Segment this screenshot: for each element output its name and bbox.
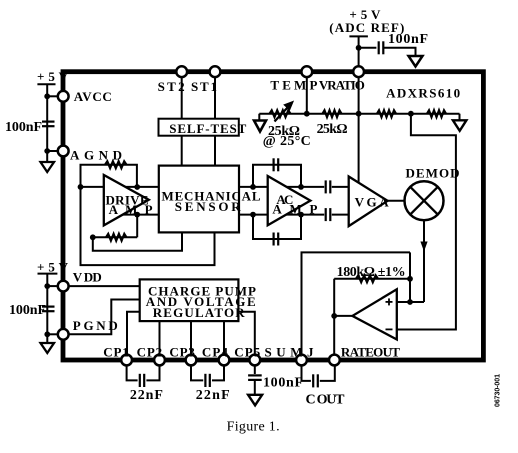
svg-text:REGULATOR: REGULATOR xyxy=(153,305,246,320)
ADXRS610 chip boundary xyxy=(63,72,483,360)
svg-text:22nF: 22nF xyxy=(196,388,230,403)
wire self-test to sensor (ST1) xyxy=(214,136,216,166)
wire drive bottom feedback xyxy=(93,236,137,238)
(ADC REF) label xyxy=(329,20,404,35)
node AVCC junction xyxy=(44,93,50,99)
svg-text:06730-001: 06730-001 xyxy=(495,374,502,407)
node AC in top junction xyxy=(250,184,256,190)
SENSOR label xyxy=(175,199,242,214)
TEMP pin label xyxy=(270,78,317,93)
svg-text:CP1: CP1 xyxy=(103,344,129,359)
100nF label (CP5) xyxy=(263,376,303,391)
svg-text:DEMOD: DEMOD xyxy=(406,165,460,180)
pin CP5 xyxy=(249,355,260,366)
VGA label xyxy=(355,195,390,210)
node PGND junction xyxy=(44,331,50,337)
CP5 pin label xyxy=(234,344,260,359)
node AC out bottom junction xyxy=(298,212,304,218)
CP4 pin label xyxy=(202,344,229,359)
resistor (RATIO to divider node) xyxy=(377,110,396,117)
node feedback resistor right junction xyxy=(407,276,413,282)
svg-text:AMP: AMP xyxy=(272,201,317,216)
resistor (drive amp bottom feedback) xyxy=(106,234,127,241)
svg-text:SENSOR: SENSOR xyxy=(175,199,242,214)
capacitor 100nF (AVCC decoupling) xyxy=(42,122,55,127)
06730-001 doc number xyxy=(495,374,502,407)
svg-text:22nF: 22nF xyxy=(130,388,163,403)
wire charge pump to CP1 xyxy=(127,312,140,357)
node VDD junction xyxy=(44,283,50,289)
op-amp VGA xyxy=(349,177,388,227)
wire lower signal rail xyxy=(110,214,324,216)
+5V ADC REF rail bar xyxy=(349,35,368,37)
node ADC REF junction xyxy=(356,45,362,51)
CP3 pin label xyxy=(169,344,195,359)
svg-text:+ 5 V: + 5 V xyxy=(37,260,69,275)
pin CP2 xyxy=(154,355,165,366)
wire upper signal rail xyxy=(81,186,325,188)
+5V supply rail bar (AVCC) xyxy=(37,83,55,85)
svg-text:ST2: ST2 xyxy=(158,79,185,94)
mixer DEMOD xyxy=(405,181,444,220)
wire cap to ground (ADC REF) xyxy=(383,48,415,56)
ST2 pin label xyxy=(158,79,185,94)
capacitor (AC amp top feedback) xyxy=(274,158,279,171)
svg-text:C OUT: C OUT xyxy=(306,393,346,408)
svg-text:CP5: CP5 xyxy=(234,344,260,359)
wire charge pump to CP5 xyxy=(238,312,254,357)
ST1 pin label xyxy=(191,79,217,94)
resistor 180kOhm zigzag xyxy=(356,275,378,282)
node RATIO junction xyxy=(356,111,362,117)
wire ST1 pin to self-test box xyxy=(214,78,216,119)
wire drive bottom feedback riser xyxy=(136,215,138,238)
pin AVCC xyxy=(58,91,69,102)
node AC in bottom junction xyxy=(250,212,256,218)
charge pump box xyxy=(140,279,239,321)
wire plus input xyxy=(397,301,424,303)
node divider junction xyxy=(408,111,414,117)
pin CP3 xyxy=(186,355,197,366)
resistor (drive amp top feedback) xyxy=(105,161,127,168)
wire drive top feedback loop xyxy=(81,165,137,187)
wire AC amp bottom feedback loop xyxy=(253,215,301,239)
capacitor 22nF (CP1-CP2) xyxy=(140,374,144,387)
wire CP5 to 100nF cap xyxy=(254,363,256,374)
wire SUMJ to C OUT xyxy=(302,363,311,381)
AC label xyxy=(276,192,293,207)
wire +5V rail down to AVCC/AGND xyxy=(46,84,48,162)
AMP label (drive) xyxy=(109,202,153,217)
@ 25C label xyxy=(263,134,311,149)
PGND pin label xyxy=(73,318,118,333)
wire stub to VDD pin xyxy=(47,285,58,287)
wire 100nF cap to ground xyxy=(254,380,256,395)
svg-text:100nF: 100nF xyxy=(388,32,428,47)
wire feedback node riser xyxy=(409,252,411,302)
wire AC amp top feedback loop xyxy=(253,165,301,187)
mechanical sensor box xyxy=(159,166,239,233)
svg-text:180kΩ ±1%: 180kΩ ±1% xyxy=(337,265,406,280)
capacitor C OUT xyxy=(313,374,318,387)
wire sensor to drive input loop xyxy=(81,187,215,265)
potentiometer wiper arrow xyxy=(275,102,294,122)
wire self-test to sensor (ST2) xyxy=(181,136,183,166)
capacitor (VGA bottom coupling) xyxy=(326,208,331,221)
potentiometer 25kOhm @25C zigzag xyxy=(270,110,291,117)
wire charge pump to CP2 xyxy=(159,321,161,357)
wire charge pump to CP3 xyxy=(190,321,192,357)
arrow on DEMOD output xyxy=(420,242,427,252)
svg-text:V DD: V DD xyxy=(73,270,102,285)
svg-text:100nF: 100nF xyxy=(9,303,46,318)
AMP label (AC) xyxy=(272,201,317,216)
op-amp output amplifier xyxy=(352,289,396,339)
resistor 25kOhm (TEMP-RATIO) xyxy=(323,110,342,117)
op-amp AC AMP xyxy=(268,176,311,225)
node output junction xyxy=(331,313,337,319)
node TEMP junction xyxy=(304,111,310,117)
svg-text:VRATIO: VRATIO xyxy=(319,78,365,93)
svg-text:TEMP: TEMP xyxy=(270,78,317,93)
AND VOLTAGE label xyxy=(146,294,256,309)
capacitor 22nF (CP3-CP4) xyxy=(205,374,209,387)
+5V supply rail bar (VDD) xyxy=(38,273,58,275)
AVCC pin label xyxy=(74,89,112,104)
wire RATIO to VGA gain input xyxy=(358,78,360,184)
pin CP1 xyxy=(121,355,132,366)
Figure 1. caption xyxy=(227,420,280,435)
pin SUMJ xyxy=(296,355,307,366)
C OUT label xyxy=(306,393,346,408)
wire pot to ground bend xyxy=(258,114,260,121)
svg-text:CP3: CP3 xyxy=(169,344,195,359)
ground (divider) xyxy=(453,120,467,131)
capacitor (AC amp bottom feedback) xyxy=(274,233,279,246)
op-amp DRIVE AMP xyxy=(104,175,149,225)
wire temp network rail xyxy=(259,113,459,115)
wire junction to 100nF cap xyxy=(359,47,377,49)
svg-text:AVCC: AVCC xyxy=(74,89,112,104)
node drive top feedback junction xyxy=(134,184,140,190)
wire 22nF to CP4 xyxy=(212,363,224,380)
svg-text:Figure 1.: Figure 1. xyxy=(227,420,280,435)
svg-text:25kΩ: 25kΩ xyxy=(317,122,348,137)
100nF label (AVCC) xyxy=(5,120,42,135)
wire ADC REF down to RATIO pin xyxy=(358,36,360,66)
svg-text:CP4: CP4 xyxy=(202,344,229,359)
pin RATIO xyxy=(353,66,364,77)
DEMOD label xyxy=(406,165,460,180)
node drive bottom feedback junction xyxy=(134,212,140,218)
node AGND junction xyxy=(44,148,50,154)
capacitor 100nF (CP5) xyxy=(248,375,262,380)
REGULATOR label xyxy=(153,305,246,320)
VRATIO pin label xyxy=(319,78,365,93)
ground (VDD chain) xyxy=(41,343,55,353)
wire CP1 to 22nF xyxy=(127,363,138,380)
wire 22nF to CP2 xyxy=(146,363,159,380)
svg-text:ST1: ST1 xyxy=(191,79,217,94)
ground (temp pot) xyxy=(254,121,266,132)
wire lower rail after cap to VGA xyxy=(332,214,349,216)
plus sign xyxy=(386,298,393,305)
+5V (ADC REF) label xyxy=(349,7,381,22)
wire CP3 to 22nF xyxy=(191,363,203,380)
CP2 pin label xyxy=(137,344,163,359)
wire stub to AGND pin xyxy=(47,150,58,152)
SELF-TEST label xyxy=(169,121,246,136)
wire sensor to drive bottom loop xyxy=(93,232,182,250)
svg-text:100nF: 100nF xyxy=(5,120,42,135)
svg-text:ADXRS610: ADXRS610 xyxy=(386,86,460,101)
svg-text:@ 25°C: @ 25°C xyxy=(263,134,311,149)
pin AGND xyxy=(58,146,69,157)
MECHANICAL label xyxy=(162,188,261,203)
pin ST2 xyxy=(176,66,187,77)
22nF label (CP3-CP4) xyxy=(196,388,230,403)
wire TEMP pin to rail xyxy=(306,78,308,114)
svg-text:RATEOUT: RATEOUT xyxy=(341,344,400,359)
node plus input junction xyxy=(407,299,413,305)
wire stub to PGND pin xyxy=(47,333,58,335)
resistor (divider node to ground) xyxy=(427,110,446,117)
wire DEMOD output down xyxy=(423,220,425,302)
22nF label (CP1-CP2) xyxy=(130,388,163,403)
wire stub to AVCC pin xyxy=(47,95,58,97)
wire +5V rail down to VDD/PGND xyxy=(46,274,48,343)
svg-text:VGA: VGA xyxy=(355,195,390,210)
100nF label (ADC REF) xyxy=(388,32,428,47)
pin VDD xyxy=(58,281,69,292)
svg-text:CP2: CP2 xyxy=(137,344,163,359)
+5V supply label (AVCC) xyxy=(37,69,69,84)
svg-text:AMP: AMP xyxy=(109,202,153,217)
100nF label (VDD) xyxy=(9,303,46,318)
VDD pin label xyxy=(73,270,102,285)
node drive input junction xyxy=(78,184,84,190)
RATEOUT pin label xyxy=(341,344,400,359)
ground (AVCC chain) xyxy=(41,162,55,172)
self-test box xyxy=(159,119,239,136)
180kOhm +/-1% label xyxy=(337,265,406,280)
CP1 pin label xyxy=(103,344,129,359)
capacitor 100nF (ADC REF) xyxy=(379,41,384,54)
wire ST2 pin to self-test box xyxy=(181,78,183,119)
pin PGND xyxy=(58,329,69,340)
pin CP4 xyxy=(219,355,230,366)
25kOhm @ 25C value label xyxy=(268,124,300,139)
pin RATEOUT xyxy=(329,355,340,366)
wire VDD to charge pump xyxy=(69,285,140,287)
wire VGA to DEMOD xyxy=(388,200,405,202)
ground (ADC REF) xyxy=(409,56,423,67)
capacitor (VGA top coupling) xyxy=(326,180,331,193)
svg-text:100nF: 100nF xyxy=(263,376,303,391)
AGND pin label xyxy=(70,148,122,163)
pin TEMP xyxy=(301,66,312,77)
wire PGND to charge pump xyxy=(69,300,140,335)
node drive bottom left junction xyxy=(90,234,96,240)
wire divider node to minus input (jog) xyxy=(397,114,456,330)
pin ST1 xyxy=(210,66,221,77)
wire 180k left leg to output node xyxy=(333,279,335,357)
+5V supply label (VDD) xyxy=(37,260,69,275)
wire charge pump to CP4 xyxy=(223,321,225,357)
wire upper rail after cap to VGA xyxy=(332,186,349,188)
wire op-amp output to node xyxy=(334,315,353,317)
resistor 180kOhm feedback wire xyxy=(334,278,410,280)
minus sign xyxy=(386,328,393,330)
SUMJ pin label xyxy=(265,344,315,359)
svg-text:+ 5 V: + 5 V xyxy=(37,69,69,84)
node AC out top junction xyxy=(298,184,304,190)
wire C OUT to RATEOUT xyxy=(320,363,335,381)
CHARGE PUMP label xyxy=(148,283,256,298)
ADXRS610 part label xyxy=(386,86,460,101)
DRIVE label xyxy=(106,192,149,207)
wire SUMJ top run xyxy=(302,252,411,357)
25kOhm value label xyxy=(317,122,348,137)
capacitor 100nF (VDD decoupling) xyxy=(42,307,55,312)
wire divider to ground bend xyxy=(459,114,461,121)
ground (CP5) xyxy=(248,395,262,406)
svg-text:SELF-TEST: SELF-TEST xyxy=(169,121,246,136)
